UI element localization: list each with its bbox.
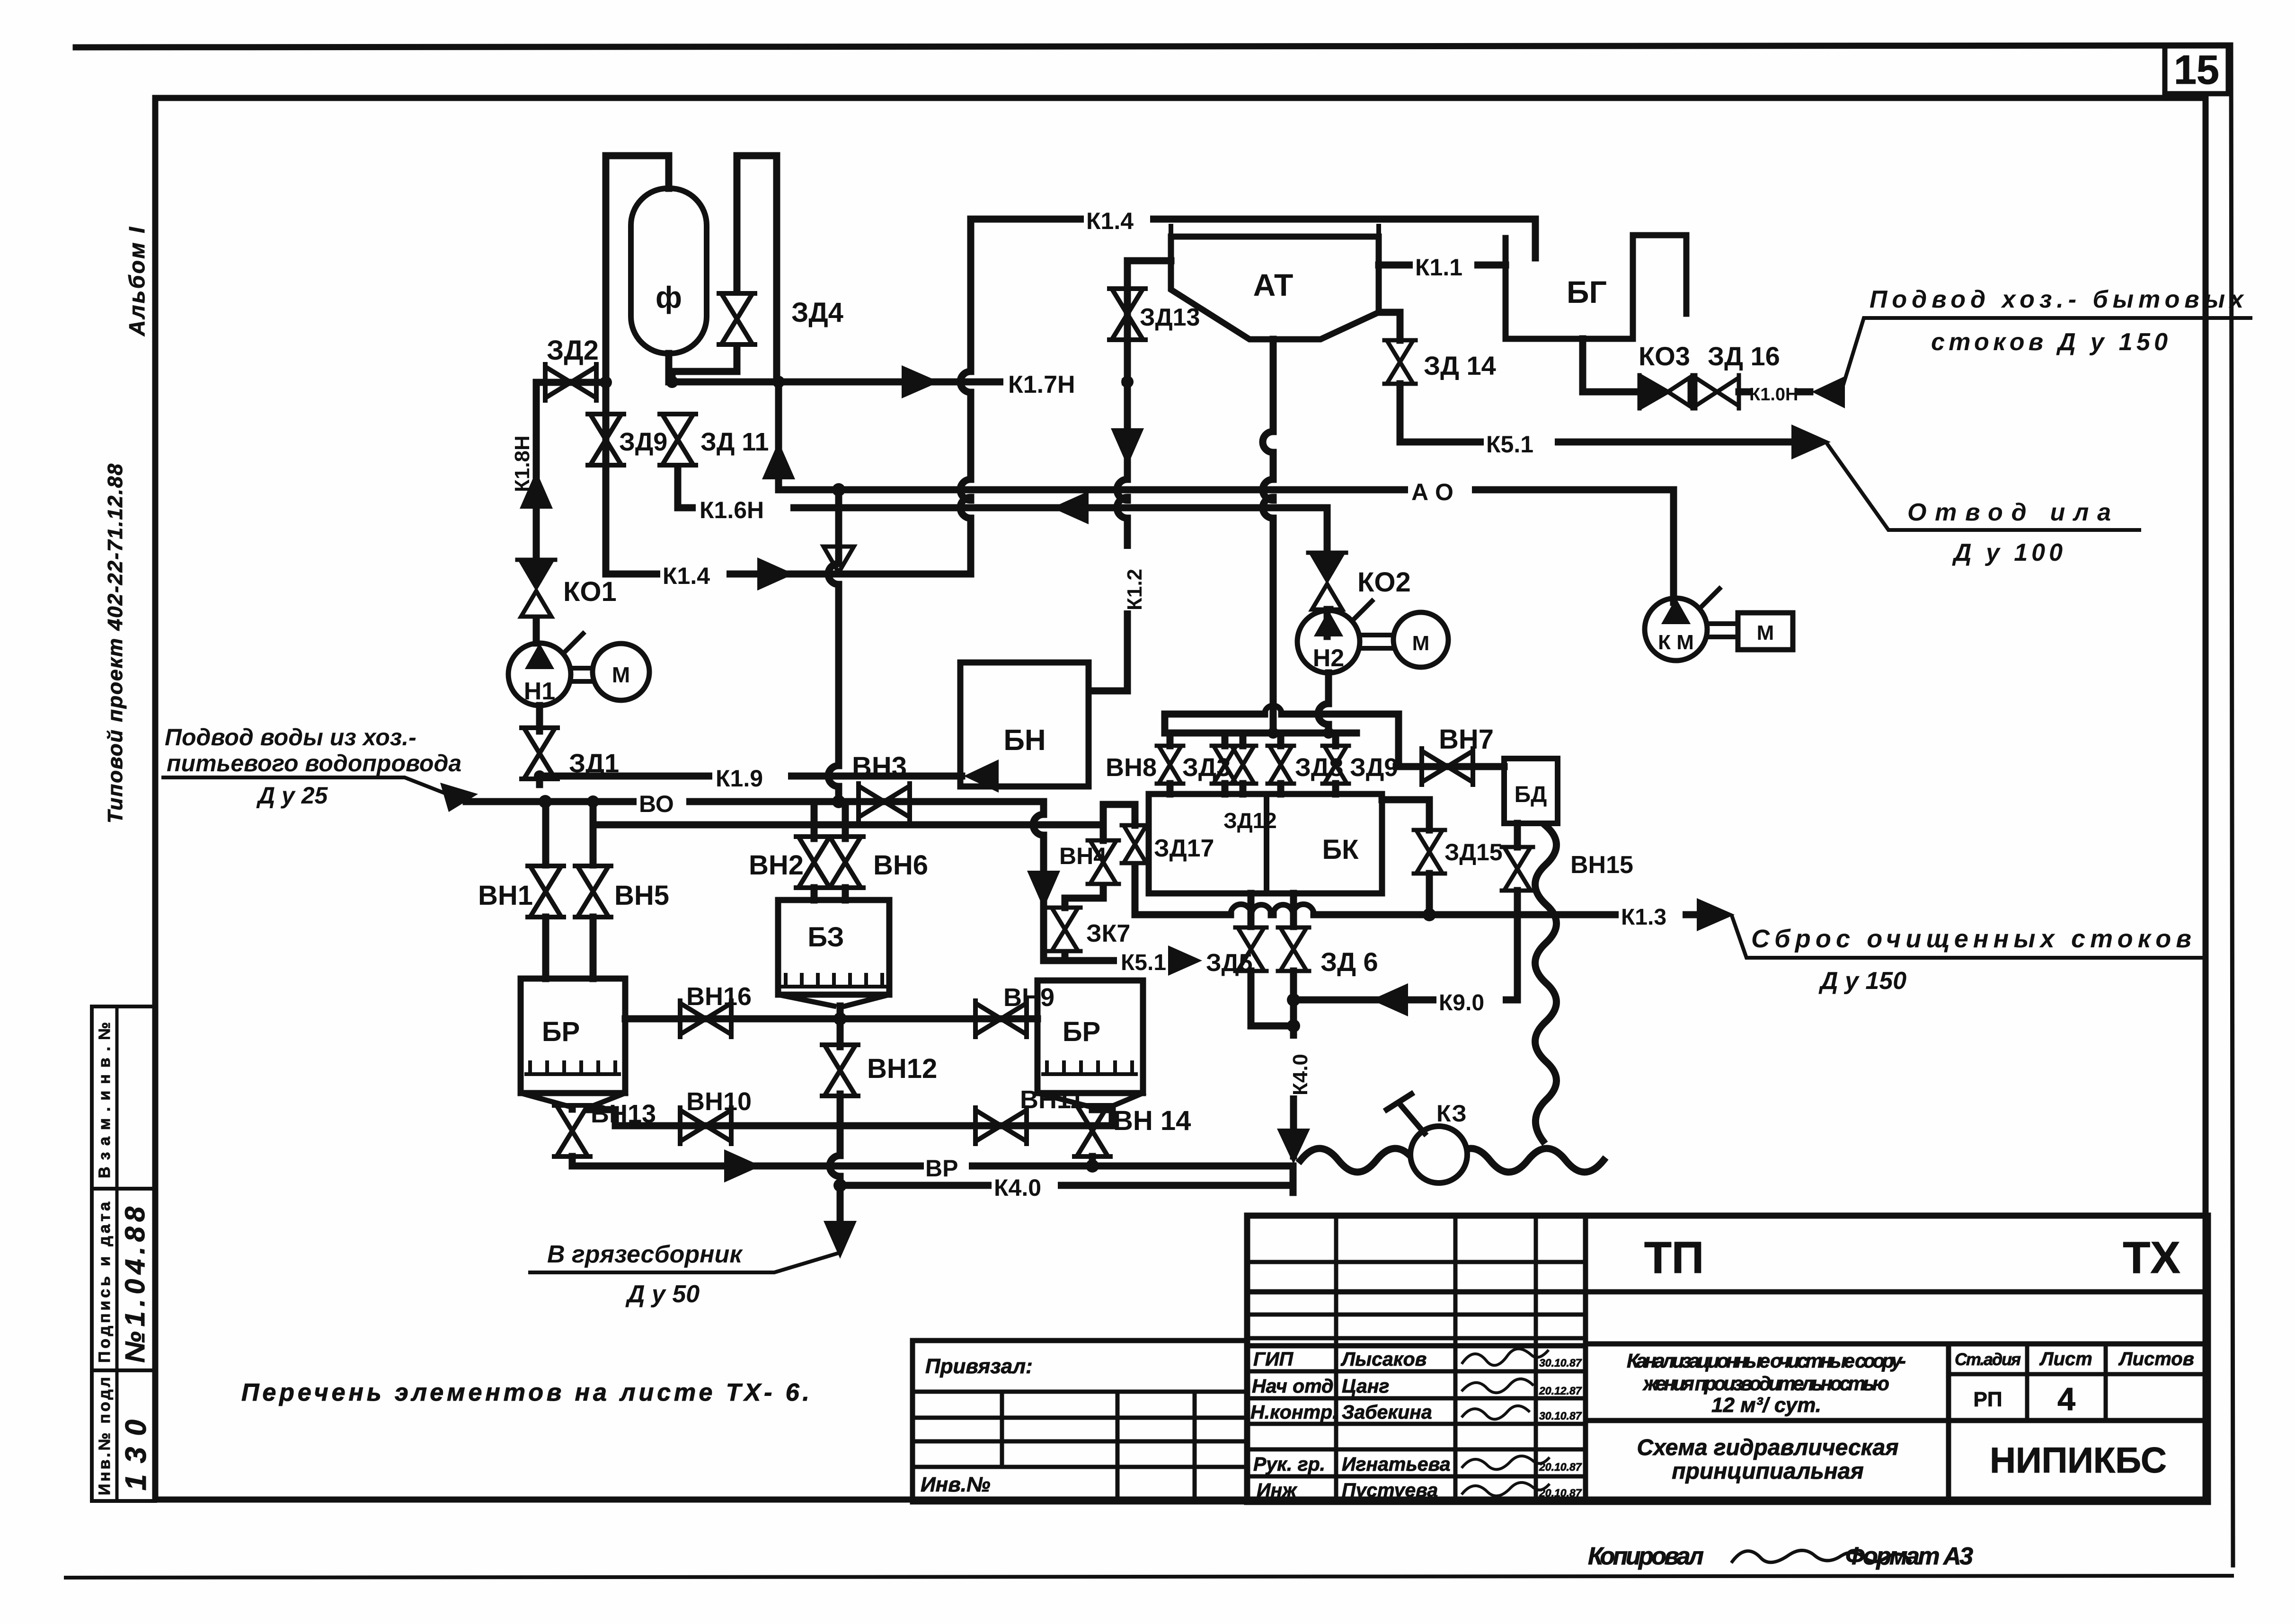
line K1.4 lower xyxy=(606,468,971,574)
line K1.7N xyxy=(672,379,1127,386)
svg-text:М: М xyxy=(1412,632,1430,655)
svg-text:ЗД13: ЗД13 xyxy=(1140,304,1200,331)
valve ZD8 xyxy=(1277,733,1285,746)
svg-text:БЗ: БЗ xyxy=(807,922,844,953)
line AO xyxy=(779,486,1674,494)
line K1.6N elbow from ZD11 xyxy=(678,468,1327,508)
svg-text:Забекина: Забекина xyxy=(1342,1401,1432,1423)
svg-text:ЗК7: ЗК7 xyxy=(1086,920,1130,947)
hose to pump KZ xyxy=(1301,1148,1604,1172)
branch to VN10 line xyxy=(587,1110,615,1126)
line K1.8N vertical xyxy=(533,382,540,557)
node K1.0N xyxy=(1739,388,1747,396)
check symbol on drop xyxy=(824,547,854,574)
svg-text:Д у 150: Д у 150 xyxy=(1818,967,1906,995)
wire K1.4 drop into BG xyxy=(1532,219,1539,258)
pump KM riser xyxy=(1670,490,1677,602)
svg-text:К1.1: К1.1 xyxy=(1415,254,1462,281)
line K1.2 with valve ZD13 xyxy=(1090,261,1171,691)
svg-text:ЗД4: ЗД4 xyxy=(791,297,843,328)
svg-text:К1.8Н: К1.8Н xyxy=(511,435,534,492)
svg-text:К1.0Н: К1.0Н xyxy=(1749,385,1798,405)
svg-text:ф: ф xyxy=(656,280,682,314)
leader to silt outfall xyxy=(1828,445,2139,530)
svg-text:КЗ: КЗ xyxy=(1436,1100,1467,1127)
flow arrow up AO riser xyxy=(762,441,795,479)
svg-text:Формат А3: Формат А3 xyxy=(1845,1543,1973,1570)
svg-text:К1.4: К1.4 xyxy=(1086,208,1134,234)
motor M2 coupling xyxy=(1363,635,1392,648)
manifold rail lower xyxy=(1165,730,1356,737)
wire VN4 to ZK7 xyxy=(1065,886,1103,908)
motor M2 xyxy=(1393,612,1448,667)
svg-text:15: 15 xyxy=(2174,47,2219,93)
svg-text:Н1: Н1 xyxy=(524,678,555,705)
svg-text:ТХ: ТХ xyxy=(2123,1233,2180,1283)
svg-text:Подвод хоз.- бытовых: Подвод хоз.- бытовых xyxy=(1870,286,2244,313)
svg-text:30.10.87: 30.10.87 xyxy=(1539,1357,1582,1369)
check valve KO2 xyxy=(1324,508,1331,551)
svg-text:Н2: Н2 xyxy=(1313,644,1344,672)
svg-text:20.12.87: 20.12.87 xyxy=(1539,1385,1582,1397)
flow arrow down K1.2 xyxy=(1111,428,1144,466)
svg-text:ВН6: ВН6 xyxy=(873,850,928,881)
line VN10-VN11 xyxy=(615,1122,1112,1130)
svg-text:КО1: КО1 xyxy=(563,576,617,607)
pump N2 xyxy=(1327,609,1330,636)
tank BN xyxy=(960,662,1089,786)
valve ZD3 (twin) xyxy=(1225,733,1243,746)
node K1.7N label xyxy=(1003,370,1122,395)
valve ZD4 lower pipe xyxy=(672,347,737,382)
svg-text:питьевого водопровода: питьевого водопровода xyxy=(167,750,461,777)
svg-text:130: 130 xyxy=(120,1420,152,1491)
left small table xyxy=(1334,1216,1338,1502)
crew rows xyxy=(1250,1348,1451,1501)
filter outlet pipe xyxy=(665,353,673,382)
svg-text:БК: БК xyxy=(1322,834,1359,865)
motor M1 xyxy=(593,644,649,700)
flow arrow K1.4 xyxy=(757,557,794,591)
svg-text:принципиальная: принципиальная xyxy=(1672,1459,1864,1484)
sheet number box 15 xyxy=(2165,45,2228,94)
outer right line xyxy=(2231,45,2233,1565)
line K4.0 drop xyxy=(1281,1039,1306,1095)
svg-text:ВН7: ВН7 xyxy=(1439,724,1494,755)
svg-text:ВН10: ВН10 xyxy=(686,1087,752,1116)
svg-text:М: М xyxy=(1757,621,1774,644)
svg-text:ЗД2: ЗД2 xyxy=(547,335,599,366)
svg-text:Д у 50: Д у 50 xyxy=(625,1280,700,1308)
line K4.0 lower xyxy=(840,1182,1289,1189)
line K1.1 xyxy=(1379,262,1506,269)
flow arrow K1.7N xyxy=(902,365,939,398)
svg-text:ТП: ТП xyxy=(1644,1233,1704,1283)
svg-text:М: М xyxy=(612,662,630,687)
svg-text:БГ: БГ xyxy=(1567,274,1607,309)
svg-text:РП: РП xyxy=(1974,1388,2003,1411)
svg-text:НИПИКБС: НИПИКБС xyxy=(1990,1440,2167,1481)
line K1.4 riser xyxy=(960,219,1535,574)
svg-text:№1.04.88: №1.04.88 xyxy=(120,1206,151,1363)
tank BK xyxy=(1149,794,1382,893)
valve ZD14 branch xyxy=(1382,312,1400,340)
svg-text:ВН12: ВН12 xyxy=(867,1053,937,1084)
svg-text:Игнатьева: Игнатьева xyxy=(1342,1453,1451,1475)
wire center drop to mud collector xyxy=(830,1126,840,1230)
line K5.1 left xyxy=(1044,953,1181,961)
line AO riser xyxy=(775,382,782,490)
motor M1 coupling xyxy=(574,668,592,681)
svg-text:жения производительностью: жения производительностью xyxy=(1642,1372,1889,1395)
svg-text:К1.3: К1.3 xyxy=(1621,905,1666,930)
flow arrow up K1.8N xyxy=(520,471,553,509)
valve VN12 xyxy=(837,1019,844,1047)
svg-text:ВО: ВО xyxy=(639,791,674,817)
svg-text:ЗД9: ЗД9 xyxy=(1350,753,1398,782)
tank BR right funnel xyxy=(1037,1093,1143,1107)
svg-text:ВН15: ВН15 xyxy=(1570,851,1633,879)
svg-text:ЗД12: ЗД12 xyxy=(1223,808,1277,833)
tank BZ xyxy=(778,900,889,995)
svg-text:4: 4 xyxy=(2057,1381,2075,1417)
valve ZK7 xyxy=(1049,908,1081,951)
svg-text:Типовой проект 402-22-71.12.88: Типовой проект 402-22-71.12.88 xyxy=(104,463,127,823)
motor M box xyxy=(1738,613,1793,650)
svg-text:Копировал: Копировал xyxy=(1588,1543,1704,1570)
valves VN2 VN6 xyxy=(814,802,845,838)
wire right drop of VO xyxy=(1033,802,1044,961)
svg-text:Цанг: Цанг xyxy=(1342,1375,1389,1397)
svg-text:К5.1: К5.1 xyxy=(1486,431,1533,458)
right section xyxy=(1586,1342,2208,1347)
svg-text:Д у 25: Д у 25 xyxy=(256,782,328,809)
valve VN7 line xyxy=(1396,763,1504,770)
node AO junction xyxy=(832,483,845,496)
svg-text:Листов: Листов xyxy=(2118,1349,2194,1369)
valve ZD11 xyxy=(660,414,696,465)
svg-text:ВН5: ВН5 xyxy=(614,880,669,911)
svg-text:К1.9: К1.9 xyxy=(716,765,763,792)
svg-text:В грязесборник: В грязесборник xyxy=(547,1241,743,1268)
check valve KO1 xyxy=(517,560,555,617)
svg-text:КО3: КО3 xyxy=(1639,341,1690,371)
svg-text:Канализационные очистные соору: Канализационные очистные соору- xyxy=(1627,1350,1906,1372)
valve ZD17 xyxy=(1103,804,1135,825)
svg-text:Подвод воды из хоз.-: Подвод воды из хоз.- xyxy=(165,724,416,750)
valve VN14 xyxy=(1074,1105,1110,1156)
branch BR right to VN11 line xyxy=(1092,1110,1112,1126)
filter tank F loop left pipe xyxy=(606,156,669,574)
line K1.3 xyxy=(1135,911,1723,918)
manifold rail upper xyxy=(1165,714,1399,767)
svg-text:Инв.№: Инв.№ xyxy=(921,1473,990,1496)
left stamp column xyxy=(90,1006,94,1501)
svg-text:БР: БР xyxy=(1063,1016,1100,1047)
svg-text:БН: БН xyxy=(1003,724,1046,757)
svg-text:К1.7Н: К1.7Н xyxy=(1008,371,1075,398)
valve ZD2 xyxy=(545,364,596,400)
check valve KO3 xyxy=(1639,375,1692,408)
line K1.9 xyxy=(540,776,962,785)
svg-text:Лист: Лист xyxy=(2039,1349,2092,1369)
valves ZD5 ZD6 xyxy=(1251,893,1294,927)
valve VN4 xyxy=(1100,825,1107,840)
svg-text:ВН3: ВН3 xyxy=(852,751,907,782)
svg-text:ЗД3: ЗД3 xyxy=(1182,753,1231,782)
line VN16-VN9 xyxy=(625,1015,1037,1023)
svg-text:АТ: АТ xyxy=(1253,267,1294,302)
svg-text:ВР: ВР xyxy=(925,1155,958,1182)
flow arrow VO start xyxy=(440,783,478,812)
leader sewage inlet xyxy=(1841,318,2251,392)
PART:TITLEBLOCK xyxy=(1247,1216,2208,1502)
mid bottom table xyxy=(913,1341,1247,1502)
pump N1 flag xyxy=(566,634,583,651)
svg-text:А О: А О xyxy=(1411,479,1453,505)
flow arrow into sewage inlet xyxy=(1812,376,1845,408)
tank BZ funnel xyxy=(778,995,889,1006)
valve VN3 xyxy=(859,784,910,820)
svg-text:Инв.№ подл: Инв.№ подл xyxy=(96,1377,114,1495)
svg-text:ЗД 6: ЗД 6 xyxy=(1320,947,1378,977)
valve ZD9b xyxy=(1332,733,1339,746)
line to VN5/VN4 xyxy=(593,802,1103,825)
tank BR left xyxy=(521,979,625,1093)
valve ZD9 xyxy=(588,414,624,465)
hose wavy vertical xyxy=(1535,826,1557,1141)
svg-text:ВН1: ВН1 xyxy=(478,880,533,911)
pump N1 xyxy=(533,618,540,643)
signatures xyxy=(1462,1349,1549,1496)
valve VN15 xyxy=(1514,823,1521,847)
flow arrow K5.1 right xyxy=(1791,424,1831,459)
svg-text:Схема гидравлическая: Схема гидравлическая xyxy=(1637,1435,1898,1460)
svg-text:К4.0: К4.0 xyxy=(994,1174,1041,1201)
mud collector callout xyxy=(530,1253,839,1272)
tank BD xyxy=(1504,759,1558,823)
flow arrow K5.1 xyxy=(1168,945,1202,976)
svg-text:ЗД 16: ЗД 16 xyxy=(1708,341,1780,371)
valve ZD16 xyxy=(1695,375,1739,408)
flow arrow left K1.6N xyxy=(1052,491,1089,524)
svg-text:Пустуева: Пустуева xyxy=(1342,1479,1438,1501)
line K9.0 xyxy=(1294,997,1517,1004)
svg-text:ВН4: ВН4 xyxy=(1059,843,1107,869)
svg-text:ВН2: ВН2 xyxy=(749,850,804,881)
svg-text:30.10.87: 30.10.87 xyxy=(1539,1410,1582,1422)
line VO xyxy=(466,798,1044,805)
outer bottom line xyxy=(66,1576,2232,1578)
line VR xyxy=(572,1166,1293,1192)
pump KM xyxy=(1645,598,1707,661)
outer top line xyxy=(76,45,2230,47)
svg-text:Нач отд: Нач отд xyxy=(1252,1375,1333,1397)
svg-text:Инж: Инж xyxy=(1257,1479,1297,1501)
svg-text:КО2: КО2 xyxy=(1357,567,1411,598)
valve ZD2 line xyxy=(536,379,606,386)
tank BR right xyxy=(1037,980,1143,1093)
svg-text:ГИП: ГИП xyxy=(1253,1348,1294,1370)
svg-text:ЗД17: ЗД17 xyxy=(1154,835,1214,862)
svg-text:Привязал:: Привязал: xyxy=(925,1355,1033,1378)
svg-text:стоков Д у 150: стоков Д у 150 xyxy=(1931,328,2168,356)
svg-text:12 м³/ сут.: 12 м³/ сут. xyxy=(1711,1394,1821,1417)
svg-text:К1.2: К1.2 xyxy=(1123,569,1146,610)
svg-text:Лысаков: Лысаков xyxy=(1340,1348,1427,1370)
svg-text:ВН8: ВН8 xyxy=(1106,753,1157,782)
flow arrow down xyxy=(1027,871,1060,909)
valve VN13 xyxy=(569,1107,576,1109)
svg-text:Ст.адия: Ст.адия xyxy=(1955,1350,2021,1369)
svg-text:ВН16: ВН16 xyxy=(686,982,752,1011)
valve ZD15 xyxy=(1382,800,1429,830)
svg-text:ВН11: ВН11 xyxy=(1020,1086,1084,1114)
tank AT xyxy=(1171,237,1379,339)
valve VN5 drop xyxy=(590,825,597,865)
outfall callout xyxy=(1732,917,2206,958)
filter tank F (capsule) xyxy=(631,188,707,353)
flow arrow into BN xyxy=(964,759,999,793)
svg-text:ВН 14: ВН 14 xyxy=(1113,1105,1191,1136)
main frame xyxy=(155,98,2206,1500)
valve ZD1 pipe xyxy=(536,706,543,731)
tank BR left funnel xyxy=(521,1093,625,1107)
svg-text:ВН9: ВН9 xyxy=(1003,983,1054,1012)
svg-text:ЗД 14: ЗД 14 xyxy=(1424,351,1496,380)
svg-text:К1.6Н: К1.6Н xyxy=(700,497,764,523)
svg-text:К4.0: К4.0 xyxy=(1289,1054,1312,1095)
valve ZD4 branch pipe xyxy=(737,156,777,382)
line K5.1 from ZD14 xyxy=(1400,384,1817,442)
svg-text:К1.4: К1.4 xyxy=(663,563,710,589)
valve ZD4 xyxy=(719,293,755,344)
pump KZ xyxy=(1410,1126,1467,1183)
wire AO drop to VO xyxy=(828,490,839,802)
svg-text:ЗД9: ЗД9 xyxy=(619,428,667,456)
svg-text:БР: БР xyxy=(542,1016,580,1047)
motor M box coupling xyxy=(1709,624,1736,637)
valve VN1 drop xyxy=(542,802,549,865)
svg-text:БД: БД xyxy=(1515,782,1547,807)
svg-text:ЗД 11: ЗД 11 xyxy=(700,428,769,456)
svg-text:К9.0: К9.0 xyxy=(1439,990,1484,1015)
valve VN8 xyxy=(1167,733,1174,746)
svg-text:К М: К М xyxy=(1658,631,1694,654)
svg-text:ЗД15: ЗД15 xyxy=(1444,839,1503,865)
tank BG xyxy=(1506,235,1686,339)
svg-text:К5.1: К5.1 xyxy=(1121,950,1166,975)
wire N2 discharge xyxy=(1318,673,1329,733)
wire AT bottom drain xyxy=(1263,339,1273,733)
wire BG outlet xyxy=(1583,339,1640,392)
svg-text:Н.контр.: Н.контр. xyxy=(1250,1401,1338,1423)
svg-text:Рук. гр.: Рук. гр. xyxy=(1253,1453,1325,1475)
